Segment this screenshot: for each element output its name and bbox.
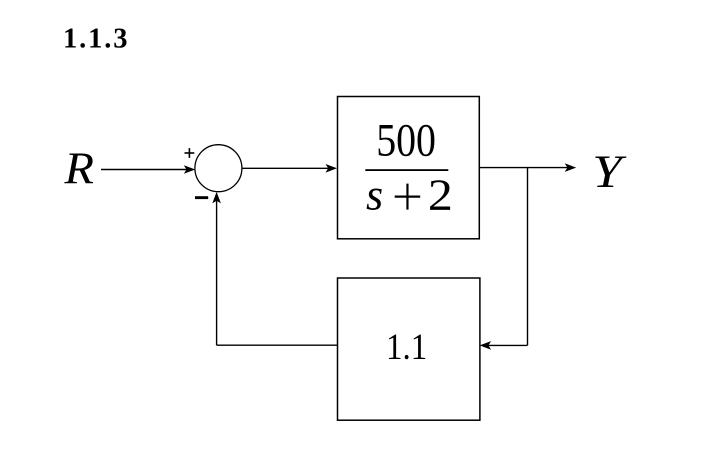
svg-text:s: s [366,170,383,219]
arrowhead into summing junction bottom [212,192,221,204]
svg-text:1.1.3: 1.1.3 [63,24,128,55]
block H1 gain 1.1 [338,278,480,420]
wire summing junction to block G [242,167,330,169]
minus sign at summing junction [195,196,208,199]
wire feedback takeoff vertical [527,168,529,346]
svg-text:1.1: 1.1 [386,327,427,368]
svg-text:R: R [63,143,94,194]
wire feedback into block H [487,344,528,346]
arrowhead to Y [565,163,577,172]
svg-text:Y: Y [592,146,627,198]
fraction bar [365,169,448,171]
wire block G output to Y [480,167,570,169]
wire R to summing junction [101,169,188,171]
arrowhead into block G [326,164,338,173]
svg-text:2: 2 [428,170,453,219]
plus sign at summing junction [185,148,195,158]
summing junction S1 [195,145,242,192]
block G1 500/(s+2) [338,97,480,239]
arrowhead into summing junction [184,165,196,174]
svg-text:500: 500 [376,116,436,167]
wire block H output left [217,344,338,346]
wire feedback up to summing junction [216,199,218,346]
arrowhead into block H [480,341,492,350]
